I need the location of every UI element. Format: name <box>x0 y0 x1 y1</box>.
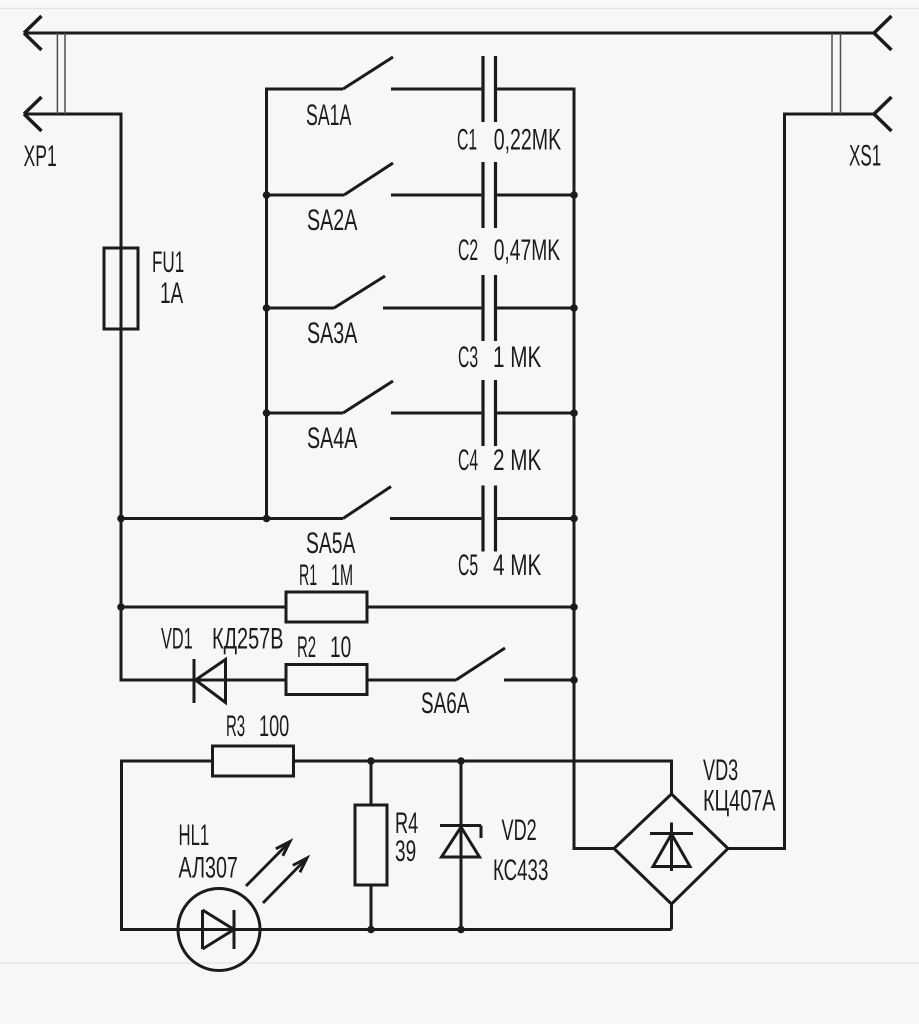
svg-text:VD2: VD2 <box>502 815 537 847</box>
svg-text:1M: 1M <box>331 559 353 591</box>
switch SA2A <box>267 194 345 197</box>
capacitor C5 <box>481 486 484 552</box>
svg-text:АЛ307: АЛ307 <box>179 852 238 885</box>
svg-text:SA4A: SA4A <box>307 422 358 455</box>
svg-text:R1: R1 <box>299 558 317 591</box>
capacitor C4 <box>481 380 484 446</box>
capacitor C1 <box>481 56 484 122</box>
svg-text:1A: 1A <box>160 278 184 310</box>
connector XS1 pin 1 fork <box>874 16 892 33</box>
capacitor C2 <box>481 162 484 228</box>
node bottom row / VD2 <box>457 926 465 934</box>
node switch-bus row 5 <box>263 515 271 523</box>
wire R3 row right to bridge top <box>294 760 672 763</box>
wire R4 bottom lead <box>370 885 373 930</box>
wire switch column bus <box>265 88 268 519</box>
resistor R2 <box>286 665 367 695</box>
svg-text:4 MK: 4 MK <box>493 550 541 582</box>
svg-text:1 MK: 1 MK <box>493 342 541 374</box>
node left-bus SA5A row <box>117 515 125 523</box>
bridge rectifier VD3 diamond <box>614 794 728 904</box>
wire VD1 row <box>120 679 287 682</box>
resistor R3 <box>213 746 294 776</box>
wire left bus from XP1 down to VD1 row <box>120 113 123 681</box>
wire bridge right corner to XS1 bus <box>726 847 786 850</box>
wire bottom row <box>120 928 672 931</box>
wire R1 row left <box>121 606 286 609</box>
connector XP1 pin 1 arrow <box>24 16 42 33</box>
svg-text:XS1: XS1 <box>849 140 881 173</box>
svg-text:2 MK: 2 MK <box>493 445 541 477</box>
bridge VD3 inner diode <box>670 823 673 872</box>
wire R3 row left <box>120 760 213 763</box>
svg-text:КС433: КС433 <box>493 855 548 887</box>
node cap-bus row 5 <box>570 515 578 523</box>
zener diode VD2 <box>440 824 481 827</box>
resistor R4 <box>355 805 387 885</box>
svg-text:R3: R3 <box>226 710 245 743</box>
wire bridge bottom lead <box>670 904 673 930</box>
node left-bus R1 row <box>117 603 125 611</box>
node switch-bus row 3 <box>263 304 271 312</box>
LED HL1 light arrows <box>246 842 290 887</box>
switch SA1A <box>267 88 344 91</box>
svg-text:C1: C1 <box>457 123 477 155</box>
svg-text:39: 39 <box>395 836 416 868</box>
node cap-bus row 2 <box>570 191 578 199</box>
svg-text:R2: R2 <box>297 631 316 664</box>
node cap-bus row 3 <box>570 304 578 312</box>
wire XS1 bus <box>783 113 786 849</box>
wire R1 row right <box>367 606 574 609</box>
faint scan line top (decorative) <box>0 8 919 10</box>
diode VD1 <box>193 659 196 703</box>
wire top net L (XP1 pin1 to XS1 pin1) <box>25 32 874 35</box>
svg-text:HL1: HL1 <box>179 819 210 852</box>
resistor R1 <box>286 592 367 622</box>
node cap-bus R1 row <box>570 603 578 611</box>
switch SA6A <box>367 679 456 682</box>
svg-text:0,47MK: 0,47MK <box>494 235 561 267</box>
connector XP1 mating lines <box>56 33 58 114</box>
switch SA3A <box>267 307 335 310</box>
svg-text:VD1: VD1 <box>161 624 193 656</box>
capacitor C3 <box>481 275 484 341</box>
svg-text:SA3A: SA3A <box>307 317 358 350</box>
connector XS1 mating lines <box>831 33 833 114</box>
node switch-bus row 4 <box>263 409 271 417</box>
svg-text:C3: C3 <box>458 341 478 373</box>
node R3 row / R4 branch <box>367 757 375 765</box>
wire VD2 branch <box>460 761 463 930</box>
node bottom row / R4 <box>367 926 375 934</box>
fuse FU1 <box>104 248 138 329</box>
connector XP1 pin 2 arrow <box>24 97 42 114</box>
svg-text:XP1: XP1 <box>24 141 57 174</box>
node R3 row / VD2 branch <box>457 757 465 765</box>
svg-text:100: 100 <box>259 711 289 743</box>
node cap-bus row 4 <box>570 409 578 417</box>
wire R4 top lead <box>370 761 373 805</box>
svg-text:C4: C4 <box>458 444 478 476</box>
wire second net N left segment <box>25 113 123 116</box>
svg-text:10: 10 <box>330 632 351 664</box>
node cap-bus SA6A row <box>570 676 578 684</box>
wire second net N right segment <box>785 113 875 116</box>
svg-text:SA1A: SA1A <box>306 100 352 133</box>
LED HL1 <box>178 889 260 971</box>
svg-text:FU1: FU1 <box>152 246 184 279</box>
switch SA5A <box>121 517 343 520</box>
svg-text:SA2A: SA2A <box>307 204 358 237</box>
wire R3 row left corner down <box>120 760 123 930</box>
faint scan line bottom (decorative) <box>0 962 919 964</box>
svg-text:SA6A: SA6A <box>421 688 470 720</box>
svg-text:КД257В: КД257В <box>212 623 283 656</box>
svg-text:КЦ407А: КЦ407А <box>703 785 776 818</box>
svg-text:C5: C5 <box>458 549 478 581</box>
svg-text:0,22MK: 0,22MK <box>494 125 562 157</box>
connector XS1 pin 2 fork <box>874 97 892 114</box>
svg-text:SA5A: SA5A <box>306 528 356 560</box>
svg-text:C2: C2 <box>458 234 478 266</box>
node switch-bus row 2 <box>263 191 271 199</box>
svg-text:VD3: VD3 <box>703 755 738 787</box>
wire capacitor bus down to bridge left corner <box>573 88 576 849</box>
switch SA4A <box>267 412 344 415</box>
